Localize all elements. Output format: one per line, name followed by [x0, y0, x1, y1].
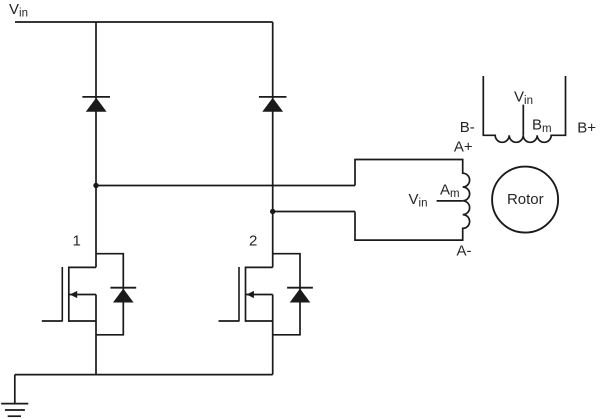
diode D2 [259, 97, 287, 112]
svg-text:Rotor: Rotor [507, 191, 544, 208]
transistor Q2 [219, 267, 273, 375]
inductor A winding [355, 160, 470, 241]
wire Q1 body diode branch [96, 254, 123, 335]
rotor circle [492, 167, 558, 233]
svg-text:Vin: Vin [514, 88, 533, 107]
svg-text:B+: B+ [577, 120, 596, 137]
wire top Vin rail [15, 21, 273, 23]
svg-text:2: 2 [249, 233, 257, 250]
ground [1, 375, 28, 417]
svg-text:1: 1 [73, 233, 81, 250]
node A+ junction dot [93, 183, 98, 188]
node A- junction dot [270, 209, 275, 214]
wire right branch drain [272, 22, 274, 267]
svg-text:Vin: Vin [9, 1, 28, 20]
wire Q2 body diode branch [273, 254, 300, 335]
inductor B winding [483, 76, 565, 142]
svg-text:A-: A- [457, 243, 472, 260]
wire phase A+ lead [96, 185, 355, 187]
wire A winding center tap [437, 200, 463, 202]
svg-text:A+: A+ [454, 138, 473, 155]
svg-text:Vin: Vin [409, 191, 428, 210]
wire ground rail [15, 374, 273, 376]
diode D1 [82, 97, 110, 112]
transistor Q1 [42, 267, 96, 375]
svg-text:Am: Am [440, 181, 460, 200]
wire B winding center tap [522, 105, 524, 136]
diode Q1 body [110, 288, 136, 303]
svg-text:B-: B- [460, 119, 475, 136]
diode Q2 body [287, 288, 313, 303]
wire left branch drain [95, 22, 97, 267]
svg-text:Bm: Bm [532, 116, 552, 135]
wire phase A- lead [273, 211, 355, 213]
